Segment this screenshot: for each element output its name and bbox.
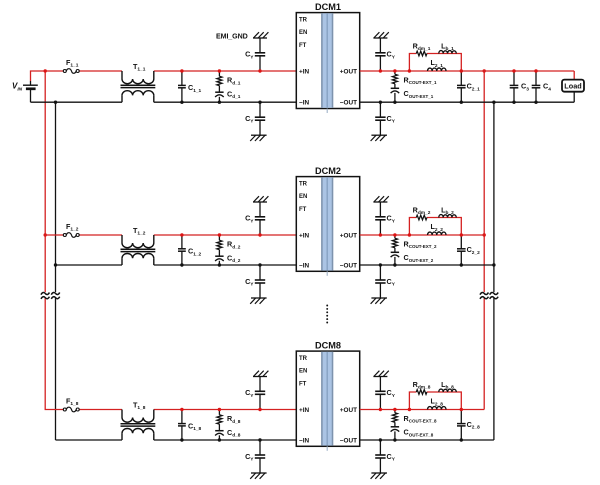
wire +in row 2 (fuse to choke): [79, 234, 122, 236]
svg-text:Load: Load: [564, 82, 581, 91]
svg-text:CY: CY: [245, 114, 254, 125]
wire +in row 8 (fuse to choke): [79, 409, 122, 411]
svg-text:Rdm_1: Rdm_1: [413, 41, 431, 52]
svg-text:T1_1: T1_1: [133, 62, 146, 73]
Y-capacitor C_Y top-left row 1: [245, 38, 265, 73]
svg-text:Lb_2: Lb_2: [441, 205, 454, 216]
resistor R_COUT-EXT_8: [392, 408, 437, 424]
fuse F_1_2: [63, 222, 79, 237]
wire +out row 2: [360, 234, 485, 236]
resistor R_dm_8: [413, 380, 431, 394]
common-mode choke T_1_8: [121, 400, 156, 440]
damping capacitor C_d_8: [215, 424, 241, 442]
wire +out row 8: [360, 409, 485, 411]
svg-text:DCM1: DCM1: [315, 2, 341, 12]
inductor L_b_2: [439, 205, 457, 217]
svg-text:L2_8: L2_8: [430, 397, 443, 408]
chassis ground top-left row 2: [253, 196, 268, 202]
DCM module U2 (DCM2): [296, 166, 359, 276]
resistor R_dm_1: [413, 41, 431, 55]
capacitor C_OUT-EXT_2: [391, 248, 434, 267]
svg-text:C3: C3: [521, 82, 529, 93]
svg-text:EMI_GND: EMI_GND: [216, 33, 248, 41]
chassis ground top-right row 2: [373, 196, 388, 202]
svg-text:DCM2: DCM2: [315, 166, 341, 176]
Y-capacitor C_Y bottom-right row 2: [375, 263, 396, 298]
svg-text:F1_1: F1_1: [66, 58, 79, 69]
inductor L_2_8: [428, 397, 447, 410]
wire +in row 8 (choke to +IN pin): [154, 409, 296, 411]
svg-text:−OUT: −OUT: [340, 437, 357, 444]
Y-capacitor C_Y top-right row 1: [375, 38, 396, 73]
svg-text:CY: CY: [387, 452, 396, 463]
wire battery positive to fuse: [31, 71, 64, 81]
capacitor C_1_8: [178, 408, 202, 442]
inductor L_2_1: [428, 58, 447, 71]
chassis ground bottom-left row 8: [250, 473, 266, 479]
chassis ground top-right row 1: [373, 32, 388, 38]
chassis ground bottom-left row 2: [250, 298, 266, 304]
wire +in row 2 (bus to fuse): [45, 234, 64, 236]
battery V_IN: [12, 81, 38, 102]
svg-text:EN: EN: [299, 194, 307, 200]
svg-text:L2_2: L2_2: [430, 222, 443, 233]
wire from load negative: [573, 92, 575, 103]
svg-text:CY: CY: [245, 452, 254, 463]
svg-text:Cd_8: Cd_8: [227, 428, 241, 439]
svg-text:Rd_8: Rd_8: [227, 414, 241, 425]
wire branch row 1: [408, 54, 462, 73]
resistor R_dm_2: [413, 205, 431, 219]
wire branch row 8: [408, 392, 462, 411]
svg-text:T1_8: T1_8: [133, 400, 146, 411]
break symbol right black bus: [490, 292, 498, 298]
svg-text:CY: CY: [387, 214, 396, 225]
Y-capacitor C_Y bottom-left row 2: [245, 263, 265, 298]
fuse F_1_1: [63, 58, 79, 73]
svg-text:+OUT: +OUT: [340, 68, 357, 75]
Y-capacitor C_Y top-left row 2: [245, 202, 265, 237]
svg-text:C1_2: C1_2: [188, 247, 202, 258]
output bus negative (right black): [492, 101, 495, 441]
svg-text:CY: CY: [245, 50, 254, 61]
wire -out row 1: [360, 101, 575, 103]
svg-text:−OUT: −OUT: [340, 262, 357, 269]
damping capacitor C_d_2: [215, 250, 241, 267]
common-mode choke T_1_2: [121, 226, 156, 265]
svg-text:F1_2: F1_2: [66, 222, 79, 233]
svg-text:Cd_1: Cd_1: [227, 89, 241, 100]
input bus negative (left black): [54, 101, 57, 441]
svg-text:RCOUT-EXT_2: RCOUT-EXT_2: [404, 239, 437, 249]
svg-text:F1_8: F1_8: [66, 397, 79, 408]
capacitor C_OUT-EXT_1: [391, 84, 434, 104]
wire branch row 2: [408, 218, 462, 237]
load: [562, 80, 584, 92]
capacitor C_2_2: [457, 233, 480, 266]
Y-capacitor C_Y top-left row 8: [245, 377, 265, 412]
wire -in row 2 (left to choke): [56, 264, 123, 266]
svg-text:CY: CY: [245, 388, 254, 399]
svg-text:Rd_2: Rd_2: [227, 240, 241, 251]
svg-text:Rdm_8: Rdm_8: [413, 380, 431, 391]
wire +out row 1: [360, 70, 575, 72]
wire to load positive: [573, 71, 575, 80]
svg-text:TR: TR: [299, 17, 308, 23]
svg-text:VIN: VIN: [12, 82, 23, 93]
svg-text:+IN: +IN: [299, 407, 310, 414]
svg-text:CY: CY: [387, 388, 396, 399]
chassis ground bottom-right row 1: [371, 135, 387, 141]
Y-capacitor C_Y bottom-right row 8: [375, 438, 396, 473]
svg-text:COUT-EXT_8: COUT-EXT_8: [404, 428, 434, 438]
capacitor C_2_8: [457, 408, 480, 442]
svg-text:RCOUT-EXT_8: RCOUT-EXT_8: [404, 414, 437, 424]
svg-text:C2_1: C2_1: [467, 82, 481, 93]
svg-text:C1_8: C1_8: [188, 421, 202, 432]
net label EMI_GND: [216, 33, 248, 41]
ellipsis (more modules): [326, 305, 328, 324]
chassis ground bottom-left row 1: [250, 135, 266, 141]
svg-text:TR: TR: [299, 181, 308, 187]
svg-text:Lb_8: Lb_8: [441, 380, 454, 391]
svg-text:COUT-EXT_1: COUT-EXT_1: [404, 89, 434, 99]
damping resistor R_d_1: [217, 69, 241, 86]
inductor L_b_1: [439, 41, 457, 53]
svg-text:−OUT: −OUT: [340, 100, 357, 107]
chassis ground top-left row 8: [253, 371, 268, 377]
fuse F_1_8: [63, 397, 79, 412]
svg-text:CY: CY: [245, 214, 254, 225]
damping resistor R_d_2: [217, 233, 241, 250]
capacitor C_OUT-EXT_8: [391, 422, 434, 441]
svg-text:L2_1: L2_1: [430, 58, 443, 69]
svg-text:+OUT: +OUT: [340, 232, 357, 239]
svg-text:C1_1: C1_1: [188, 83, 202, 94]
svg-text:−IN: −IN: [299, 262, 310, 269]
break symbol left black bus: [51, 292, 59, 298]
svg-text:CY: CY: [387, 277, 396, 288]
break symbol left red bus: [41, 292, 49, 298]
wire -in row 2 (choke to -IN pin): [154, 264, 296, 266]
svg-text:T1_2: T1_2: [133, 226, 146, 237]
chassis ground top-left row 1: [253, 32, 268, 38]
wire -out row 2: [360, 264, 494, 266]
wire +in row 8 (bus to fuse): [45, 409, 64, 411]
wire -in row 1 (left to choke): [31, 101, 123, 103]
wire -in row 8 (choke to -IN pin): [154, 439, 296, 441]
svg-text:FT: FT: [299, 382, 307, 388]
svg-text:CY: CY: [387, 50, 396, 61]
Y-capacitor C_Y top-right row 2: [375, 202, 396, 237]
svg-text:CY: CY: [387, 114, 396, 125]
common-mode choke T_1_1: [121, 62, 156, 102]
wire -out row 8: [360, 439, 494, 441]
resistor R_COUT-EXT_2: [392, 233, 437, 249]
svg-text:+OUT: +OUT: [340, 407, 357, 414]
svg-text:Cd_2: Cd_2: [227, 253, 241, 264]
svg-text:DCM8: DCM8: [315, 341, 341, 351]
svg-text:RCOUT-EXT_1: RCOUT-EXT_1: [404, 75, 437, 85]
break symbol right red bus: [480, 292, 488, 298]
Y-capacitor C_Y bottom-right row 1: [375, 101, 396, 136]
svg-text:EN: EN: [299, 369, 307, 375]
DCM module U8 (DCM8): [296, 341, 359, 451]
svg-text:Rd_1: Rd_1: [227, 76, 241, 87]
svg-text:CY: CY: [245, 277, 254, 288]
capacitor C_2_1: [457, 69, 480, 104]
inductor L_2_2: [428, 222, 447, 235]
damping capacitor C_d_1: [215, 86, 241, 104]
wire -in row 8 (left to choke): [56, 439, 123, 441]
Y-capacitor C_Y bottom-left row 8: [245, 438, 265, 473]
DCM module U1 (DCM1): [296, 2, 359, 113]
svg-text:−IN: −IN: [299, 100, 310, 107]
capacitor C_4: [532, 69, 552, 104]
chassis ground top-right row 8: [373, 371, 388, 377]
svg-text:C2_8: C2_8: [467, 420, 481, 431]
wire +in row 2 (choke to +IN pin): [154, 234, 296, 236]
svg-text:C4: C4: [543, 82, 551, 93]
svg-text:−IN: −IN: [299, 437, 310, 444]
inductor L_b_8: [439, 380, 457, 392]
damping resistor R_d_8: [217, 408, 241, 425]
svg-text:+IN: +IN: [299, 68, 310, 75]
svg-text:EN: EN: [299, 30, 307, 36]
svg-text:FT: FT: [299, 207, 307, 213]
wire +in row 1 (choke to +IN pin): [154, 70, 296, 72]
svg-text:C2_2: C2_2: [467, 245, 481, 256]
wire +in row 1 (fuse to choke): [79, 70, 122, 72]
chassis ground bottom-right row 2: [371, 298, 387, 304]
capacitor C_1_1: [178, 69, 202, 104]
capacitor C_3: [510, 69, 530, 104]
svg-text:TR: TR: [299, 356, 308, 362]
svg-text:Rdm_2: Rdm_2: [413, 205, 431, 216]
Y-capacitor C_Y bottom-left row 1: [245, 101, 265, 136]
svg-text:+IN: +IN: [299, 232, 310, 239]
resistor R_COUT-EXT_1: [392, 69, 437, 85]
svg-text:FT: FT: [299, 43, 307, 49]
capacitor C_1_2: [178, 233, 202, 266]
chassis ground bottom-right row 8: [371, 473, 387, 479]
output bus positive (right red): [483, 69, 486, 409]
svg-text:COUT-EXT_2: COUT-EXT_2: [404, 253, 434, 263]
Y-capacitor C_Y top-right row 8: [375, 377, 396, 412]
input bus positive (left red): [44, 69, 47, 409]
wire -in row 1 (choke to -IN pin): [154, 101, 296, 103]
svg-text:Lb_1: Lb_1: [441, 41, 454, 52]
